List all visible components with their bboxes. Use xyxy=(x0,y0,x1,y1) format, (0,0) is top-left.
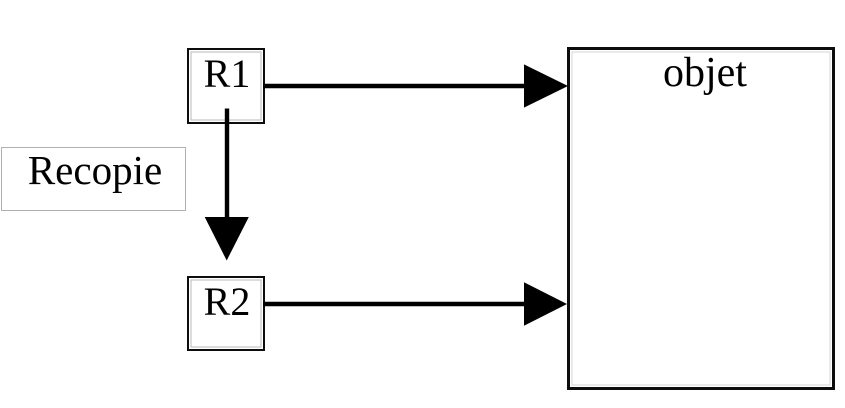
node Recopie (label box) xyxy=(1,147,186,211)
wire R1 to objet (horizontal) xyxy=(263,84,526,88)
arrowhead down into R2 xyxy=(205,217,249,261)
node R1 label xyxy=(188,50,266,97)
node R2 (box) xyxy=(187,276,265,352)
node R1 (box) xyxy=(187,48,265,125)
wire R2 to objet (horizontal) xyxy=(263,302,526,306)
wire R1 down to R2 (vertical) xyxy=(225,109,229,219)
node R2 label xyxy=(188,278,266,325)
node objet (box) xyxy=(567,47,835,390)
objet label text xyxy=(571,49,839,97)
arrowhead into objet (top) xyxy=(524,64,568,107)
arrowhead into objet (bottom) xyxy=(524,282,567,326)
Recopie label text xyxy=(3,146,188,194)
